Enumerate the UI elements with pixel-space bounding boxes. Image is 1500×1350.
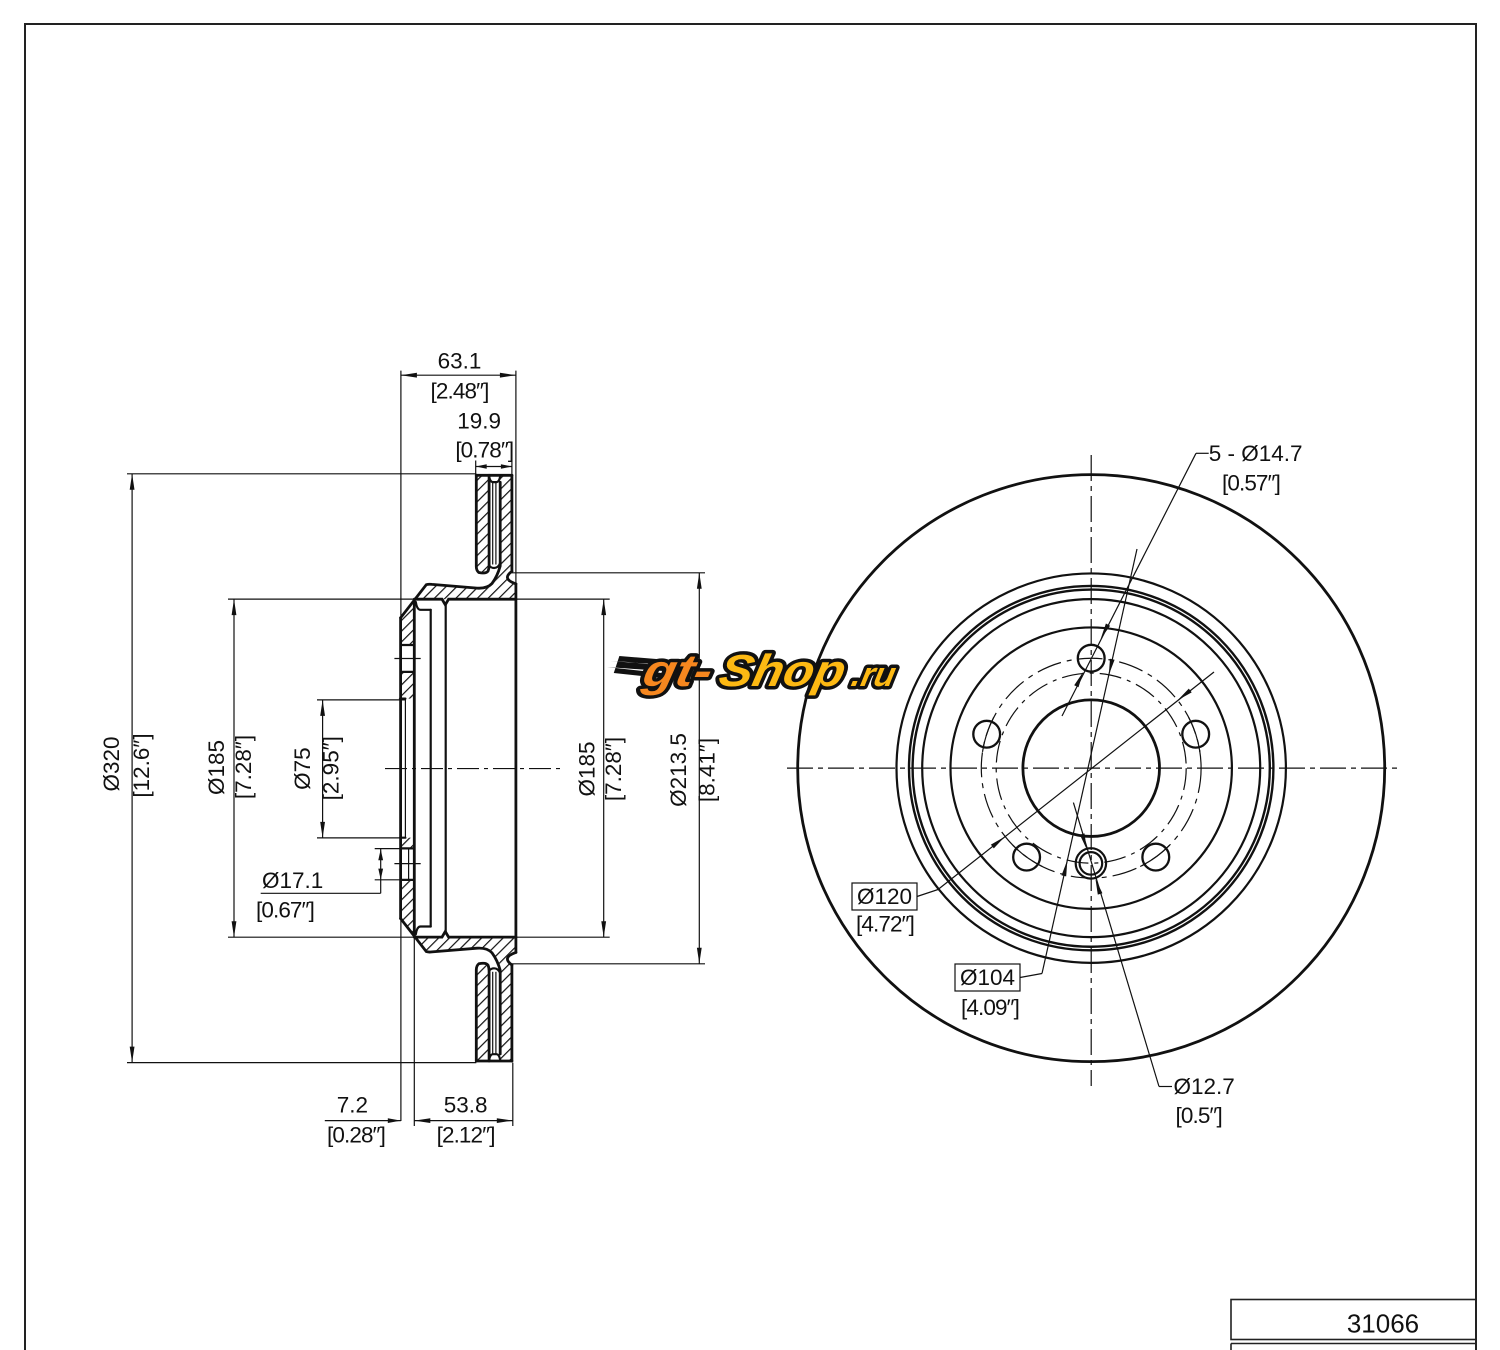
svg-text:Ø320: Ø320 — [99, 736, 124, 791]
svg-text:Ø213.5: Ø213.5 — [666, 733, 691, 807]
svg-text:[0.28″]: [0.28″] — [327, 1122, 385, 1147]
svg-text:[2.12″]: [2.12″] — [437, 1122, 495, 1147]
interior ceiling upper — [416, 602, 431, 610]
dim O75 / [2.95"] hub bore — [317, 699, 405, 701]
hat skirt inner circle O185 — [922, 599, 1260, 937]
svg-text:[12.6″]: [12.6″] — [129, 733, 154, 797]
svg-text:7.2: 7.2 — [337, 1093, 368, 1118]
dim O185 left / [7.28"] — [228, 598, 414, 600]
five bolt holes O14.7 on O120 — [1078, 645, 1105, 672]
svg-text:[0.78″]: [0.78″] — [455, 437, 513, 462]
svg-text:Ø185: Ø185 — [204, 740, 229, 795]
svg-text:[2.95″]: [2.95″] — [319, 736, 344, 800]
svg-text:Ø17.1: Ø17.1 — [262, 868, 323, 893]
svg-text:[7.28″]: [7.28″] — [601, 737, 626, 801]
svg-text:Ø185: Ø185 — [575, 741, 600, 796]
svg-text:.ru: .ru — [848, 656, 899, 694]
dim O213.5 / [8.41"] friction band inner diameter — [512, 572, 705, 574]
friction band inner circle O213.5 — [896, 573, 1285, 962]
upper vent vane lines — [492, 482, 494, 564]
svg-text:[4.09″]: [4.09″] — [961, 995, 1019, 1020]
hat mounting face (right, full height) — [515, 584, 518, 953]
label 5 - O14.7 [0.57"] with leader to top bolt hole — [1196, 452, 1209, 454]
dim 63.1 / [2.48"] overall width — [400, 371, 402, 1121]
gt-shop.ru watermark logo — [601, 645, 902, 695]
pin circle O104 (dash-dot) — [996, 673, 1186, 863]
disc bottom face — [476, 1060, 512, 1063]
label O12.7 [0.5"] with leader through pin hole — [1159, 1086, 1172, 1088]
boxed label O120 [4.72"] with diameter line — [852, 883, 917, 910]
svg-text:[4.72″]: [4.72″] — [856, 912, 914, 937]
bolt hole gap rims (section through top bolt hole) — [401, 644, 415, 646]
right view horizontal centerline — [787, 767, 1400, 769]
locating pin hole O12.7 with counterbore — [1076, 848, 1106, 878]
svg-text:31066: 31066 — [1347, 1309, 1419, 1339]
bore silhouette edges — [400, 699, 402, 838]
speed lines — [605, 656, 670, 678]
left view axis centerline — [385, 768, 562, 770]
counterbore face edge — [408, 848, 410, 880]
section hatch: hat wall segments — [401, 599, 415, 645]
svg-text:[8.41″]: [8.41″] — [695, 738, 720, 802]
svg-text:5 - Ø14.7: 5 - Ø14.7 — [1209, 441, 1303, 466]
svg-text:53.8: 53.8 — [444, 1093, 488, 1118]
svg-text:Ø120: Ø120 — [857, 884, 912, 909]
dim 7.2 / [0.28"] hat wall thickness — [413, 937, 415, 1126]
section hatch: lower right plate + elbow + hat flange — [415, 937, 516, 1061]
section hatch: upper right plate + elbow + hat flange — [415, 475, 516, 599]
hat wall outer face — [399, 618, 402, 919]
svg-text:Ø75: Ø75 — [290, 747, 315, 790]
outer diameter circle O320 — [798, 475, 1385, 1062]
hat skirt inner face (O185) lower, with V-relief — [415, 932, 516, 938]
lower right plate inner face + elbow curve to flange — [401, 919, 501, 1055]
upper right plate inner face + elbow curve to flange — [401, 482, 501, 618]
section hatch: upper left friction plate — [476, 475, 489, 573]
upper disc right face — [510, 475, 513, 571]
lower vent gap bottom curve — [489, 968, 500, 973]
svg-text:Ø104: Ø104 — [960, 965, 1015, 990]
pin hole gap rims (section through locating pin hole) — [401, 847, 415, 849]
upper vent inlet curve — [489, 476, 500, 482]
dim O320 / [12.6"] outer diameter — [127, 473, 476, 475]
disc top face — [476, 474, 512, 477]
lower vent vane lines — [492, 972, 494, 1054]
hat skirt inner face (O185) upper, with V-relief — [415, 599, 516, 605]
interior step face lines — [430, 610, 432, 927]
boxed label O104 [4.09"] with diameter line — [955, 964, 1020, 991]
hub pilot bore O75 — [1023, 700, 1160, 837]
dim O17.1 / [0.67"] pin hole counterbore — [375, 848, 401, 850]
svg-text:[0.57″]: [0.57″] — [1222, 471, 1280, 496]
svg-text:gt-: gt- — [638, 645, 718, 695]
dim 53.8 / [2.12"] — [512, 1063, 514, 1126]
hub pilot bore (O75) rim lines — [400, 697, 405, 699]
lower disc right face — [510, 965, 513, 1061]
svg-text:[0.5″]: [0.5″] — [1176, 1103, 1222, 1128]
svg-text:63.1: 63.1 — [438, 349, 482, 374]
svg-text:Shop: Shop — [715, 645, 851, 695]
svg-text:[7.28″]: [7.28″] — [231, 735, 256, 799]
upper disc: left face and plate bottom — [476, 475, 489, 573]
svg-text:[2.48″]: [2.48″] — [431, 378, 489, 403]
lower groove between disc and mounting face — [507, 952, 516, 965]
upper vent gap bottom curve — [489, 563, 500, 568]
lower disc: left face and plate bottom — [476, 963, 489, 1061]
interior step circle — [950, 627, 1231, 908]
hat wall inner face — [413, 599, 416, 937]
hat skirt outer edge circles — [909, 586, 1273, 950]
upper groove between disc and mounting face — [507, 571, 516, 584]
pin hole centerline — [394, 863, 420, 865]
section hatch: lower left friction plate — [476, 963, 489, 1061]
right view vertical centerline — [1090, 455, 1092, 1086]
svg-text:Ø12.7: Ø12.7 — [1174, 1074, 1235, 1099]
interior ceiling lower — [416, 927, 431, 935]
title block box — [1231, 1300, 1476, 1340]
lower vent inlet curve — [489, 1054, 500, 1060]
bolt circle O120 (dash-dot) — [981, 658, 1201, 878]
bolt hole centerline — [394, 658, 420, 660]
svg-text:19.9: 19.9 — [457, 409, 501, 434]
dim O185 right / [7.28"] — [516, 598, 610, 600]
svg-text:[0.67″]: [0.67″] — [256, 898, 314, 923]
dim 19.9 / [0.78"] disc thickness — [475, 461, 477, 476]
